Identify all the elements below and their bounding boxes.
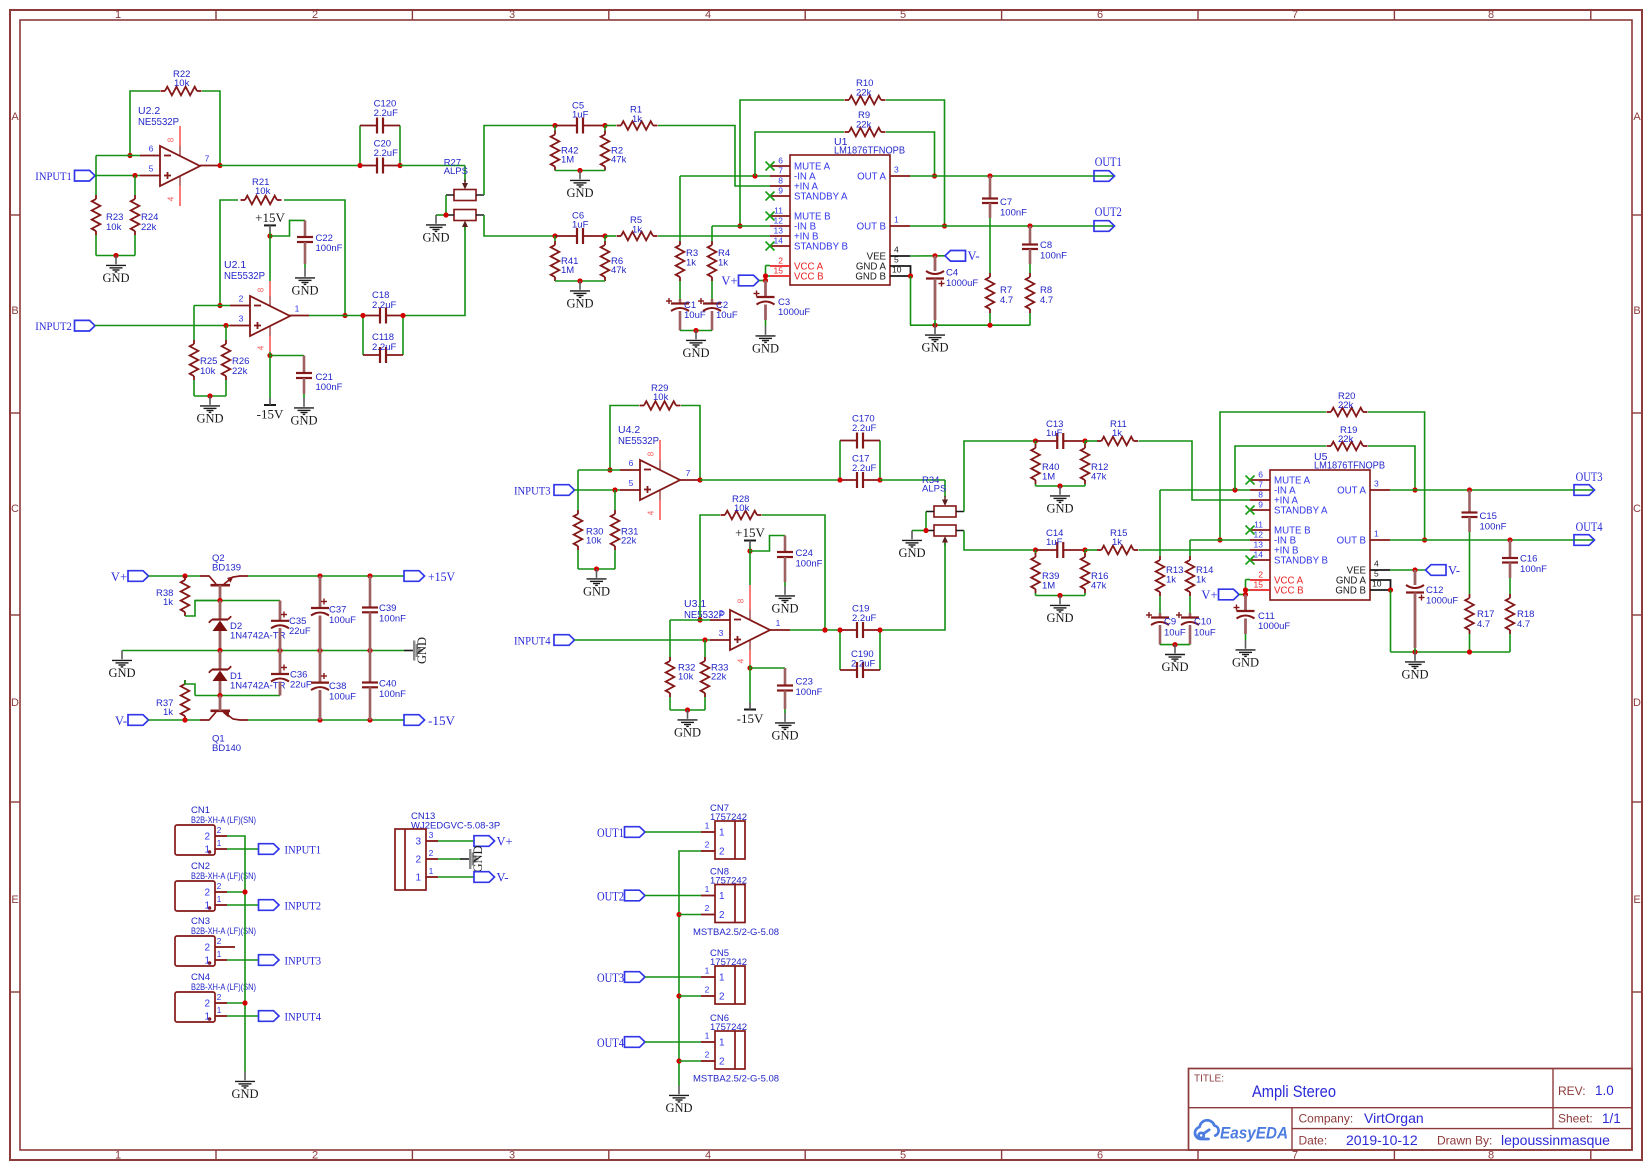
pin 1 CN5: [701, 976, 715, 978]
svg-text:1: 1: [204, 956, 210, 967]
junction: [277, 648, 282, 653]
svg-text:14: 14: [1254, 550, 1264, 560]
svg-text:2: 2: [719, 608, 724, 618]
capacitor C18: [363, 315, 380, 317]
net flag V+ at CN13: [474, 836, 495, 847]
svg-text:1M: 1M: [561, 155, 574, 166]
pin 2 CN2: [215, 891, 227, 893]
resistor R10: [849, 96, 881, 105]
wire R1 to +IN A: [658, 126, 770, 187]
junction: [357, 163, 362, 168]
svg-text:OUT2: OUT2: [597, 889, 624, 904]
capacitor C170: [839, 441, 841, 481]
junction: [607, 467, 612, 472]
svg-text:GND: GND: [682, 346, 709, 360]
svg-text:100nF: 100nF: [316, 382, 343, 393]
junction: [1467, 649, 1472, 654]
wire R38 to base node: [185, 601, 220, 617]
ground: [678, 1086, 680, 1095]
svg-text:47k: 47k: [1091, 581, 1107, 592]
wire U2.1 output to R27 box2: [403, 227, 465, 316]
svg-text:1: 1: [217, 949, 222, 959]
pin 2 CN1: [215, 835, 227, 837]
svg-text:2: 2: [204, 888, 210, 899]
pin 7 U1: [770, 175, 790, 177]
svg-text:13: 13: [1254, 540, 1264, 550]
junction: [763, 278, 768, 283]
capacitor C19: [840, 629, 857, 631]
svg-text:10k: 10k: [678, 672, 694, 683]
svg-text:C40: C40: [379, 679, 396, 690]
svg-text:10: 10: [1372, 579, 1382, 589]
junction: [987, 323, 992, 328]
wire pin2 extension: [194, 305, 230, 307]
capacitor C120: [359, 126, 361, 166]
capacitor C22: [304, 220, 307, 237]
svg-text:OUT3: OUT3: [1576, 469, 1603, 484]
junction: [697, 617, 702, 622]
ground sideways: [404, 650, 413, 652]
junction: [217, 163, 222, 168]
svg-text:1M: 1M: [1042, 581, 1055, 592]
wire pin6 extension: [96, 155, 140, 157]
junction: [217, 648, 222, 653]
svg-text:EasyEDA: EasyEDA: [1220, 1123, 1288, 1142]
svg-text:GND: GND: [771, 728, 798, 742]
stub CN3 pin2 unconnected: [227, 946, 235, 948]
wire -IN A net U5: [1160, 489, 1250, 491]
wire +15V rail: [248, 575, 404, 577]
svg-text:15: 15: [1254, 580, 1264, 590]
svg-text:2: 2: [705, 1050, 710, 1060]
pin 2 CN4: [215, 1002, 227, 1004]
svg-text:1: 1: [719, 828, 725, 839]
junction: [1412, 487, 1417, 492]
resistor R7: [986, 277, 995, 309]
wire CN1 pin1 to INPUT1: [227, 848, 259, 850]
resistor R38: [181, 580, 190, 612]
svg-text:4: 4: [1374, 559, 1379, 569]
junction: [1412, 649, 1417, 654]
svg-text:1uF: 1uF: [1046, 537, 1063, 548]
svg-text:6: 6: [1097, 9, 1103, 21]
svg-text:1k: 1k: [163, 707, 173, 718]
pin 3 stub U3.1: [710, 639, 730, 641]
resistor R5: [605, 235, 616, 237]
svg-text:Ampli Stereo: Ampli Stereo: [1252, 1082, 1336, 1101]
pin 2 CN5: [701, 995, 715, 997]
no-connect X pin 11 U5: [1246, 526, 1255, 535]
svg-text:C12: C12: [1426, 585, 1443, 596]
svg-text:2: 2: [719, 847, 725, 858]
junction: [676, 1058, 681, 1063]
svg-text:2.2uF: 2.2uF: [852, 463, 876, 474]
svg-text:2: 2: [705, 985, 710, 995]
svg-text:4: 4: [167, 196, 176, 201]
svg-text:8: 8: [647, 451, 656, 456]
svg-text:8: 8: [1488, 9, 1494, 21]
pin 6 U5: [1250, 479, 1270, 481]
svg-text:OUT B: OUT B: [857, 222, 886, 233]
capacitor C24: [784, 536, 787, 553]
junction: [1217, 537, 1222, 542]
svg-text:1.0: 1.0: [1595, 1083, 1614, 1098]
ground: [934, 325, 936, 334]
pin 1 CN7: [701, 831, 715, 833]
IC U1 LM1876TFNOPB: [790, 155, 890, 285]
svg-text:GND: GND: [108, 666, 135, 680]
resistor R21: [245, 196, 277, 205]
junction: [822, 627, 827, 632]
junction: [400, 313, 405, 318]
svg-text:6: 6: [629, 458, 634, 468]
power flag +15V: [744, 540, 756, 542]
no-connect X pin 14 U5: [1246, 556, 1255, 565]
svg-text:3: 3: [239, 314, 244, 324]
junction: [676, 993, 681, 998]
capacitor C190: [839, 630, 841, 670]
wire R21 feedback: [220, 200, 238, 306]
svg-text:10k: 10k: [174, 78, 190, 89]
svg-text:4: 4: [257, 345, 266, 350]
pin 2 CN6: [701, 1060, 715, 1062]
junction: [1057, 483, 1062, 488]
svg-text:V+: V+: [721, 274, 737, 288]
resistor R6: [604, 236, 606, 241]
junction: [697, 477, 702, 482]
svg-text:GND: GND: [771, 601, 798, 615]
svg-text:GND B: GND B: [855, 272, 886, 283]
junction: [923, 528, 928, 533]
wire +15V to pin8: [269, 232, 271, 281]
svg-text:lepoussinmasque: lepoussinmasque: [1501, 1132, 1610, 1148]
svg-text:1: 1: [719, 973, 725, 984]
svg-text:2.2uF: 2.2uF: [852, 423, 876, 434]
svg-text:8: 8: [1488, 1150, 1494, 1162]
wire R10 to OUT B: [886, 100, 945, 226]
svg-text:1k: 1k: [1196, 575, 1206, 586]
svg-text:2: 2: [204, 832, 210, 843]
svg-text:GND: GND: [898, 546, 925, 560]
svg-text:1: 1: [415, 873, 421, 884]
svg-text:REV:: REV:: [1558, 1084, 1586, 1098]
svg-text:STANDBY B: STANDBY B: [1274, 556, 1328, 567]
wire R25 R26 to ground: [193, 380, 195, 396]
junction: [1243, 587, 1248, 592]
wire U4.2 output: [700, 479, 840, 481]
wire R34 box2 out: [964, 531, 1036, 551]
capacitor C15: [1468, 490, 1471, 513]
wire R30 R31 to ground: [577, 550, 579, 569]
resistor R2: [604, 126, 606, 131]
svg-text:2: 2: [705, 903, 710, 913]
junction: [737, 223, 742, 228]
svg-text:GND: GND: [921, 341, 948, 355]
wire C17 to potentiometer R34: [880, 479, 945, 481]
wire Q2 base node: [195, 600, 280, 602]
ground: [695, 331, 697, 340]
svg-text:4: 4: [894, 245, 899, 255]
svg-text:8: 8: [167, 137, 176, 142]
ground: [784, 586, 786, 595]
resistor R8: [1026, 277, 1035, 309]
junction: [397, 163, 402, 168]
svg-text:2.2uF: 2.2uF: [374, 108, 398, 119]
svg-text:2: 2: [719, 992, 725, 1003]
junction: [367, 717, 372, 722]
resistor R20: [1331, 408, 1363, 417]
svg-text:10: 10: [892, 265, 902, 275]
svg-text:GND: GND: [752, 341, 779, 355]
svg-text:1: 1: [204, 845, 210, 856]
svg-text:C16: C16: [1520, 554, 1537, 565]
capacitor C38: [319, 651, 322, 683]
svg-text:E: E: [11, 894, 18, 906]
net flag -15V output: [404, 715, 425, 726]
capacitor C39: [369, 576, 372, 608]
svg-text:1: 1: [115, 1150, 121, 1162]
pin 3 OUT A U1: [890, 175, 910, 177]
junction: [1033, 547, 1038, 552]
svg-text:GND: GND: [665, 1101, 692, 1115]
svg-text:C10: C10: [1194, 617, 1211, 628]
svg-text:4.7: 4.7: [1477, 619, 1490, 630]
svg-text:22k: 22k: [621, 536, 637, 547]
pin 2 VCC A U5: [1250, 579, 1270, 581]
svg-text:100nF: 100nF: [796, 687, 823, 698]
IC U5 LM1876TFNOPB: [1270, 470, 1370, 600]
svg-text:2.2uF: 2.2uF: [372, 342, 396, 353]
op-amp U2.2: [179, 126, 181, 146]
resistor R11: [1085, 440, 1097, 442]
svg-text:1uF: 1uF: [572, 220, 589, 231]
svg-text:4.7: 4.7: [1040, 295, 1053, 306]
svg-text:10k: 10k: [106, 222, 122, 233]
svg-text:GND: GND: [291, 283, 318, 297]
wire OUT3 to CN5 pin1: [645, 976, 701, 978]
svg-text:10uF: 10uF: [1164, 628, 1186, 639]
svg-text:8: 8: [778, 176, 783, 186]
wire OUT A to OUT1: [910, 175, 1094, 177]
svg-text:100nF: 100nF: [1000, 208, 1027, 219]
svg-text:6: 6: [778, 156, 783, 166]
ground: [1059, 596, 1061, 605]
junction: [987, 173, 992, 178]
junction: [702, 637, 707, 642]
pin 2 stub U2.1: [230, 305, 250, 307]
svg-text:C24: C24: [796, 548, 813, 559]
junction: [1232, 487, 1237, 492]
svg-text:1: 1: [776, 618, 781, 628]
junction: [360, 313, 365, 318]
wire R23 R24 to ground: [95, 235, 97, 256]
resistor R28: [725, 511, 757, 520]
svg-text:Sheet:: Sheet:: [1558, 1112, 1593, 1126]
ground: [911, 531, 913, 540]
net flag INPUT4 at CN4: [259, 1011, 280, 1022]
svg-text:Drawn By:: Drawn By:: [1437, 1134, 1492, 1148]
svg-text:7: 7: [205, 154, 210, 164]
power flag +15V: [264, 224, 276, 226]
ground: [765, 326, 767, 335]
svg-text:22k: 22k: [232, 366, 248, 377]
svg-text:-15V: -15V: [737, 711, 764, 726]
svg-text:1k: 1k: [1112, 428, 1122, 439]
svg-text:OUT2: OUT2: [1095, 204, 1122, 219]
svg-text:1: 1: [705, 966, 710, 976]
wire R9 to OUT A: [886, 132, 935, 176]
junction: [1027, 223, 1032, 228]
svg-text:47k: 47k: [611, 155, 627, 166]
resistor R1: [605, 125, 616, 127]
junction: [1082, 438, 1087, 443]
title block: [1189, 1069, 1633, 1151]
svg-text:100nF: 100nF: [1520, 564, 1547, 575]
svg-text:1k: 1k: [632, 225, 642, 236]
wire R40 R12 join: [1035, 484, 1037, 486]
svg-text:9: 9: [778, 186, 783, 196]
pin 10 GND B U5: [1370, 589, 1390, 591]
ground: [784, 713, 786, 722]
pin 1 CN6: [701, 1041, 715, 1043]
junction: [1033, 438, 1038, 443]
svg-text:C38: C38: [329, 681, 346, 692]
svg-text:10k: 10k: [255, 186, 271, 197]
svg-text:47k: 47k: [1091, 472, 1107, 483]
wire VEE to V- U5: [1390, 569, 1426, 571]
pin 1 CN8: [701, 895, 715, 897]
capacitor C9: [1159, 596, 1161, 613]
svg-text:GND: GND: [566, 296, 593, 310]
svg-text:1M: 1M: [1042, 472, 1055, 483]
svg-text:7: 7: [1292, 9, 1298, 21]
svg-text:2.2uF: 2.2uF: [372, 300, 396, 311]
junction: [182, 717, 187, 722]
svg-text:11: 11: [1254, 520, 1263, 530]
wire center ground rail: [122, 650, 404, 652]
svg-text:GND: GND: [1161, 660, 1188, 674]
pin 13 U1: [770, 235, 790, 237]
svg-text:LM1876TFNOPB: LM1876TFNOPB: [834, 145, 905, 157]
svg-text:4: 4: [647, 510, 656, 515]
svg-text:1: 1: [705, 821, 710, 831]
ground: [579, 171, 581, 180]
capacitor C7: [989, 176, 992, 199]
svg-text:GND: GND: [566, 186, 593, 200]
svg-text:8: 8: [257, 287, 266, 292]
pin 3 CN13: [426, 840, 438, 842]
svg-text:GND: GND: [422, 230, 449, 244]
svg-text:NE5532P: NE5532P: [224, 270, 265, 282]
ground: [121, 651, 123, 660]
resistor R18: [1506, 598, 1515, 630]
pin 6 U1: [770, 165, 790, 167]
ground: [1059, 486, 1061, 495]
svg-text:VCC B: VCC B: [794, 272, 824, 283]
svg-text:STANDBY A: STANDBY A: [794, 192, 848, 203]
svg-text:22uF: 22uF: [290, 680, 312, 691]
no-connect X pin 9 U1: [766, 192, 775, 201]
resistor R41: [554, 236, 556, 241]
svg-text:7: 7: [778, 166, 783, 176]
capacitor C10: [1189, 596, 1191, 613]
junction: [602, 123, 607, 128]
junction: [676, 912, 681, 917]
pin 13 U5: [1250, 549, 1270, 551]
svg-text:3: 3: [894, 165, 899, 175]
pin 14 U1: [770, 245, 790, 247]
svg-text:7: 7: [1258, 480, 1263, 490]
svg-text:22k: 22k: [1338, 400, 1354, 411]
svg-text:6: 6: [149, 144, 154, 154]
svg-text:2: 2: [217, 881, 222, 891]
capacitor C11: [1244, 595, 1247, 612]
no-connect X pin 11 U1: [766, 212, 775, 221]
svg-text:2: 2: [204, 999, 210, 1010]
power flag -15V: [749, 665, 751, 703]
resistor R40: [1035, 441, 1037, 444]
wire +15V to pin8: [749, 547, 751, 585]
resistor R16: [1084, 550, 1086, 553]
svg-text:10uF: 10uF: [684, 310, 706, 321]
zener diode D1 1N4742A: [219, 651, 222, 670]
ground: [209, 396, 211, 405]
svg-text:+15V: +15V: [428, 570, 455, 584]
resistor R15: [1085, 549, 1097, 551]
wire R32 R33 to ground: [669, 697, 671, 710]
svg-text:V+: V+: [111, 570, 127, 584]
junction: [752, 173, 757, 178]
svg-text:2: 2: [312, 9, 318, 21]
resistor R30: [577, 470, 579, 510]
wire CN13 pin3 to V+: [438, 840, 474, 842]
ground: [435, 215, 437, 224]
pin 15 VCC B U1: [770, 275, 790, 277]
svg-text:C: C: [11, 503, 19, 515]
junction: [877, 627, 882, 632]
capacitor C118: [362, 316, 364, 356]
svg-text:GND: GND: [196, 411, 223, 425]
junction: [127, 153, 132, 158]
resistor R25: [193, 306, 195, 341]
svg-text:C9: C9: [1164, 617, 1176, 628]
pin 9 U5: [1250, 509, 1270, 511]
wire R11 to +IN A U5: [1139, 441, 1251, 500]
wire CN13 pin1 to V-: [438, 876, 474, 878]
wire CN4 pin1 to INPUT4: [227, 1015, 259, 1017]
wire OUT1 to CN7 pin1: [645, 831, 701, 833]
capacitor C8: [1029, 226, 1032, 245]
junction: [1082, 547, 1087, 552]
junction: [217, 598, 222, 603]
junction: [552, 123, 557, 128]
capacitor C2: [711, 281, 713, 299]
resistor R23: [95, 156, 97, 196]
pin 1 OUT B U1: [890, 225, 910, 227]
svg-text:100nF: 100nF: [1040, 251, 1067, 262]
svg-text:1k: 1k: [632, 114, 642, 125]
svg-text:ALPS: ALPS: [444, 166, 468, 177]
wire R20 to -IN B: [1220, 412, 1326, 540]
wire -IN B net U5: [1190, 539, 1250, 541]
ground: [303, 398, 305, 407]
svg-text:22k: 22k: [711, 672, 727, 683]
pin 12 U1: [770, 225, 790, 227]
svg-text:2: 2: [217, 992, 222, 1002]
pin 9 U1: [770, 195, 790, 197]
svg-text:OUT B: OUT B: [1337, 536, 1366, 547]
pin 4 VEE U1: [890, 255, 910, 257]
